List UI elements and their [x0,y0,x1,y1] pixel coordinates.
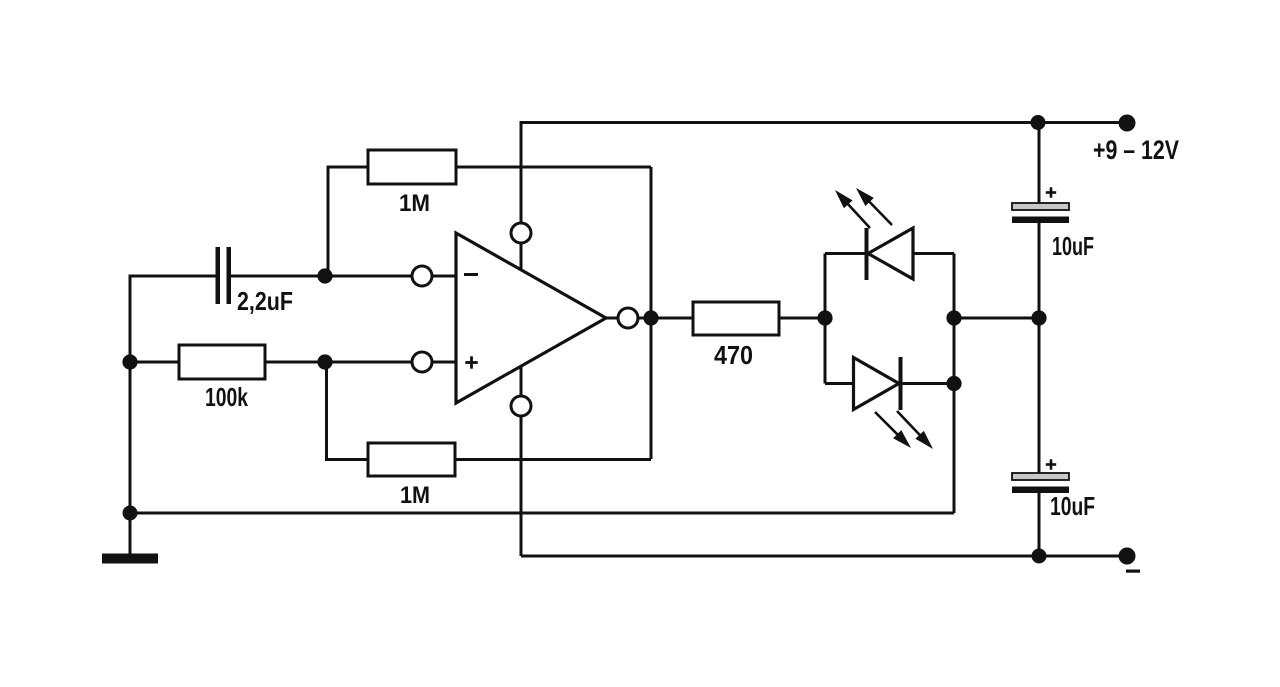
svg-text:470: 470 [714,340,753,370]
svg-text:+9 – 12V: +9 – 12V [1093,135,1179,165]
svg-text:10uF: 10uF [1050,491,1095,521]
svg-text:1M: 1M [400,482,430,509]
svg-text:2,2uF: 2,2uF [237,286,293,316]
svg-text:100k: 100k [205,382,248,412]
svg-text:1M: 1M [399,190,430,217]
svg-text:10uF: 10uF [1052,231,1094,261]
